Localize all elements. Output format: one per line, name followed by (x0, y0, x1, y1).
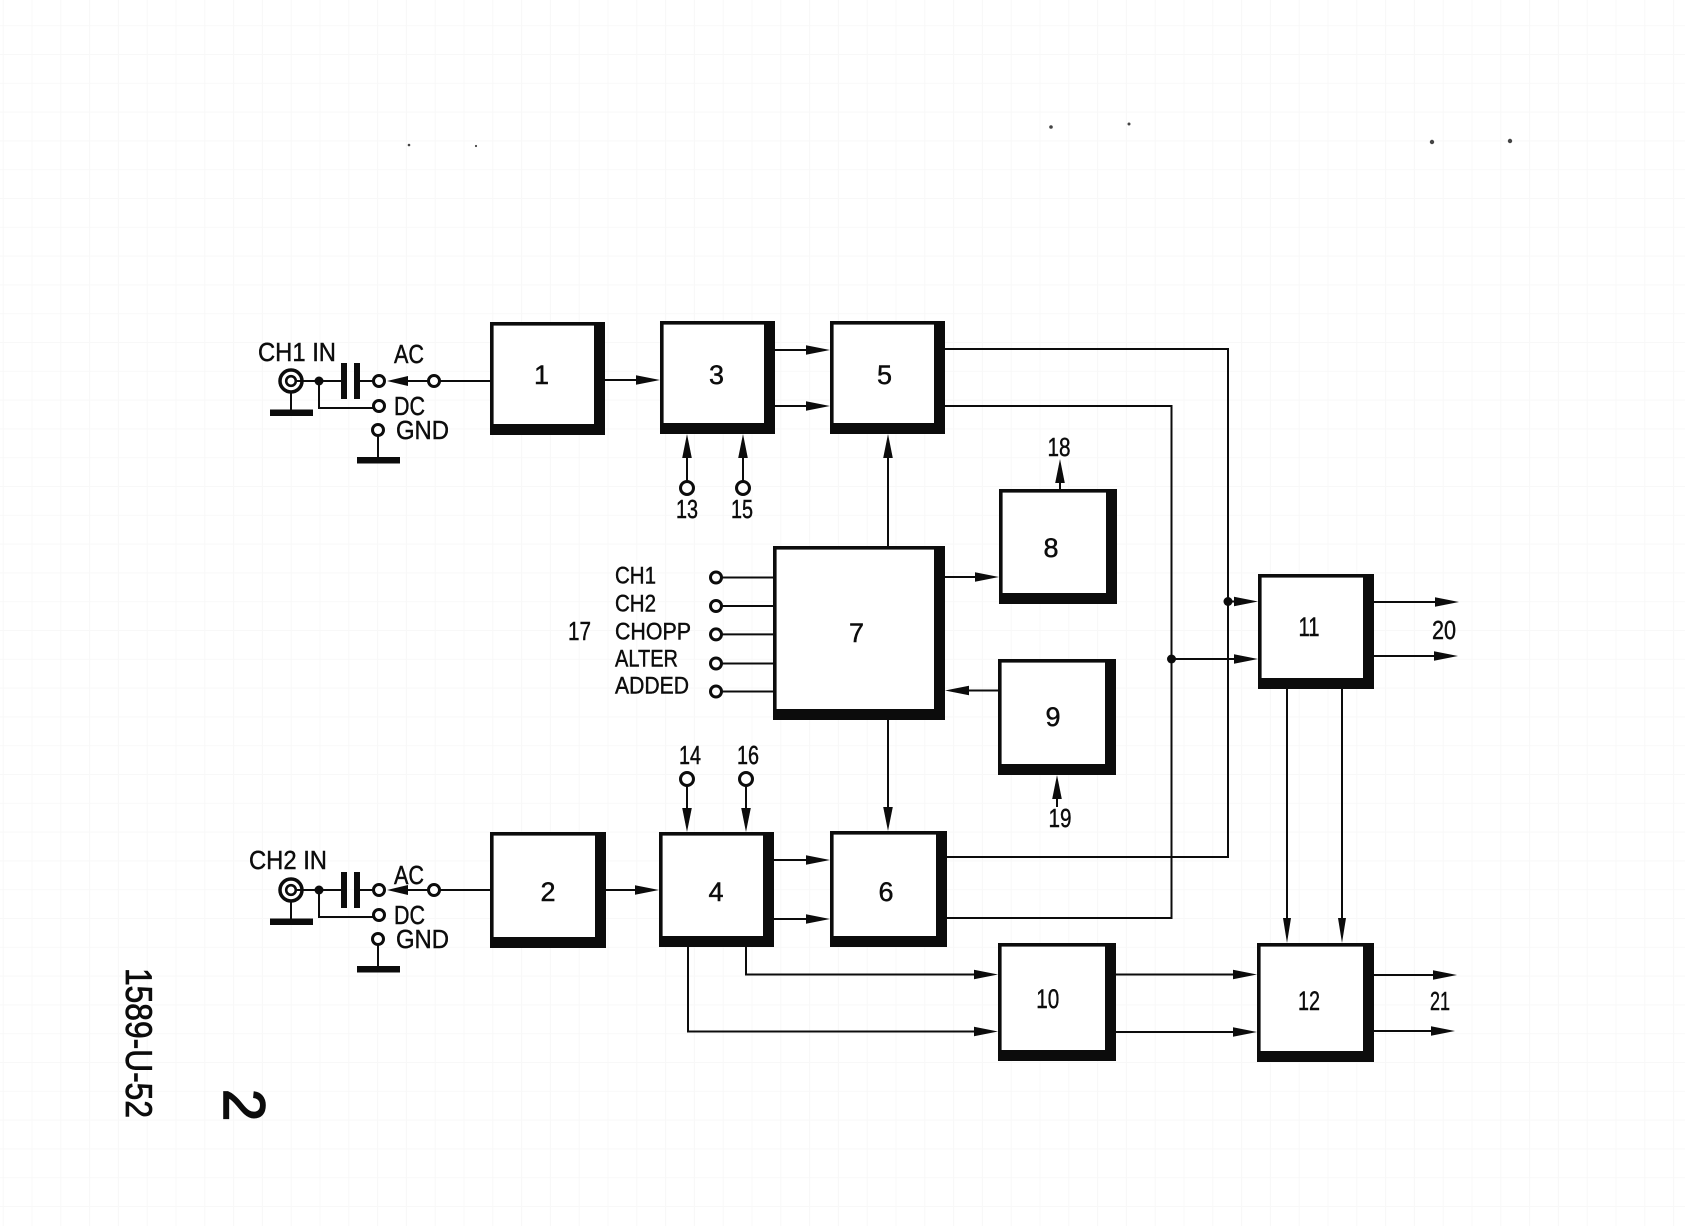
wire terminal13 to block3 (686, 454, 688, 481)
terminal AC (CH2) (374, 885, 385, 896)
wire block11 to block12 (left) (1286, 689, 1288, 923)
svg-text:2: 2 (211, 1089, 276, 1121)
svg-text:1: 1 (534, 360, 549, 390)
block 4 (659, 832, 774, 947)
block 6 (830, 831, 947, 947)
wire capacitor to AC terminal (360, 380, 373, 382)
CH2 IN coax connector (280, 879, 302, 901)
svg-text:21: 21 (1430, 986, 1450, 1016)
svg-text:13: 13 (676, 494, 698, 524)
block 9 (998, 659, 1116, 775)
svg-text:ADDED: ADDED (615, 673, 689, 700)
terminal CH1 (mode input) (711, 572, 722, 583)
block 3 (660, 321, 775, 434)
svg-text:CHOPP: CHOPP (615, 619, 691, 646)
svg-text:18: 18 (1048, 432, 1071, 462)
ground (connector CH2) (270, 901, 313, 925)
wire block4 bottom output2 to block10 (688, 947, 976, 1032)
wire block4 bottom output1 to block10 (746, 947, 976, 975)
terminal DC (CH1) (374, 401, 385, 412)
svg-text:15: 15 (731, 494, 753, 524)
terminal 14 (681, 773, 694, 786)
wire block11 to block12 (right) (1341, 689, 1343, 923)
wire block5 output2 to vertical bus and block6 output2 (945, 406, 1172, 918)
wire terminal14 to block4 (686, 786, 688, 813)
terminal 13 (681, 482, 694, 495)
terminal GND (CH2) (373, 934, 384, 945)
wire switch to block (440, 380, 490, 382)
wire to DC terminal (CH2) (319, 890, 374, 917)
CH1 IN coax connector (280, 370, 302, 392)
terminal GND (CH1) (373, 425, 384, 436)
svg-text:GND: GND (396, 924, 449, 954)
wire switch to block (440, 889, 490, 891)
svg-text:CH2: CH2 (615, 591, 656, 618)
terminal CHOPP (mode input) (711, 629, 722, 640)
wire block9 to block7 (967, 690, 998, 692)
terminal 15 (737, 482, 750, 495)
wire connector to capacitor (296, 889, 341, 891)
block 10 (998, 943, 1116, 1061)
wire block12 output 21 (lower) (1374, 1030, 1433, 1032)
wire block5 output1 to vertical bus and block6 output1 (945, 349, 1228, 857)
block 12 (1257, 943, 1374, 1062)
wire block4 to block6 (lower) (774, 918, 812, 920)
terminal DC (CH2) (374, 910, 385, 921)
wire terminal15 to block3 (742, 454, 744, 481)
switch pole terminal (CH2) (429, 885, 440, 896)
wire terminal16 to block4 (745, 786, 747, 813)
ground (GND terminal CH1) (357, 436, 400, 464)
svg-text:16: 16 (737, 740, 759, 770)
wire block3 to block5 (lower) (775, 405, 812, 407)
wire block12 output 21 (upper) (1374, 974, 1435, 976)
svg-text:7: 7 (849, 618, 864, 648)
terminal 16 (740, 773, 753, 786)
svg-text:8: 8 (1043, 533, 1058, 563)
wire to DC terminal (CH1) (319, 381, 374, 408)
wire bus1 tap to block11 input1 (1228, 601, 1238, 603)
node junction dot (CH2) (315, 886, 324, 895)
terminal AC (CH1) (374, 376, 385, 387)
node bus2 junction dot (1167, 655, 1176, 664)
wire input 19 to block9 (1056, 797, 1058, 807)
svg-text:CH1: CH1 (615, 563, 656, 590)
node bus1 junction dot (1224, 597, 1233, 606)
wire CH2 to block7 (722, 605, 774, 607)
svg-text:10: 10 (1036, 984, 1059, 1014)
block 7 (773, 546, 945, 720)
block 1 (490, 322, 605, 435)
wire block7 to block8 (945, 576, 977, 578)
wire connector to capacitor (296, 380, 341, 382)
svg-text:5: 5 (877, 360, 892, 390)
wire capacitor to AC terminal (360, 889, 373, 891)
svg-text:2: 2 (540, 877, 555, 907)
svg-text:3: 3 (709, 360, 724, 390)
svg-text:17: 17 (568, 616, 591, 646)
terminal ALTER (mode input) (711, 658, 722, 669)
capacitor (input coupling CH2) (341, 872, 360, 908)
svg-text:20: 20 (1432, 615, 1456, 645)
wire bus2 tap to block11 input2 (1172, 658, 1239, 660)
svg-text:GND: GND (396, 415, 449, 445)
terminal CH2 (mode input) (711, 601, 722, 612)
wire block7 to block6 (887, 720, 889, 811)
wire block11 output 20 (lower) (1374, 655, 1436, 657)
switch wiper arrow (CH1) (387, 376, 428, 386)
block 2 (490, 832, 606, 948)
svg-text:CH1 IN: CH1 IN (258, 337, 336, 367)
wire block11 output 20 (upper) (1374, 601, 1437, 603)
wire block4 to block6 (upper) (774, 859, 812, 861)
svg-text:12: 12 (1298, 986, 1320, 1016)
wire block1 to block3 (605, 379, 642, 381)
svg-text:AC: AC (394, 860, 424, 890)
wire ALTER to block7 (722, 663, 774, 665)
wire CH1 to block7 (722, 577, 774, 579)
wire block10 to block12 (upper) (1116, 974, 1235, 976)
wire block10 to block12 (lower) (1116, 1031, 1235, 1033)
wire block3 to block5 (upper) (775, 349, 812, 351)
svg-text:1589-U-52: 1589-U-52 (118, 968, 159, 1118)
node junction dot (CH1) (315, 377, 324, 386)
block 11 (1258, 574, 1374, 689)
svg-text:19: 19 (1049, 803, 1072, 833)
switch wiper arrow (CH2) (387, 885, 428, 895)
wire ADDED to block7 (722, 691, 774, 693)
ground (GND terminal CH2) (357, 945, 400, 973)
svg-text:14: 14 (679, 740, 701, 770)
svg-text:AC: AC (394, 339, 424, 369)
wire block8 output 18 (1059, 479, 1061, 489)
block 8 (999, 489, 1117, 604)
svg-text:9: 9 (1045, 702, 1060, 732)
ground (connector CH1) (270, 392, 313, 416)
svg-text:CH2 IN: CH2 IN (249, 845, 327, 875)
svg-text:11: 11 (1299, 612, 1320, 642)
wire block2 to block4 (606, 889, 641, 891)
block 5 (830, 321, 945, 434)
capacitor (input coupling CH1) (341, 363, 360, 399)
svg-text:6: 6 (878, 877, 893, 907)
scan specks (decorative) (408, 123, 1513, 148)
wire block7 to block5 (887, 454, 889, 546)
switch pole terminal (CH1) (429, 376, 440, 387)
svg-text:ALTER: ALTER (615, 646, 678, 673)
terminal ADDED (mode input) (711, 686, 722, 697)
wire CHOPP to block7 (722, 633, 774, 635)
svg-text:4: 4 (708, 877, 723, 907)
